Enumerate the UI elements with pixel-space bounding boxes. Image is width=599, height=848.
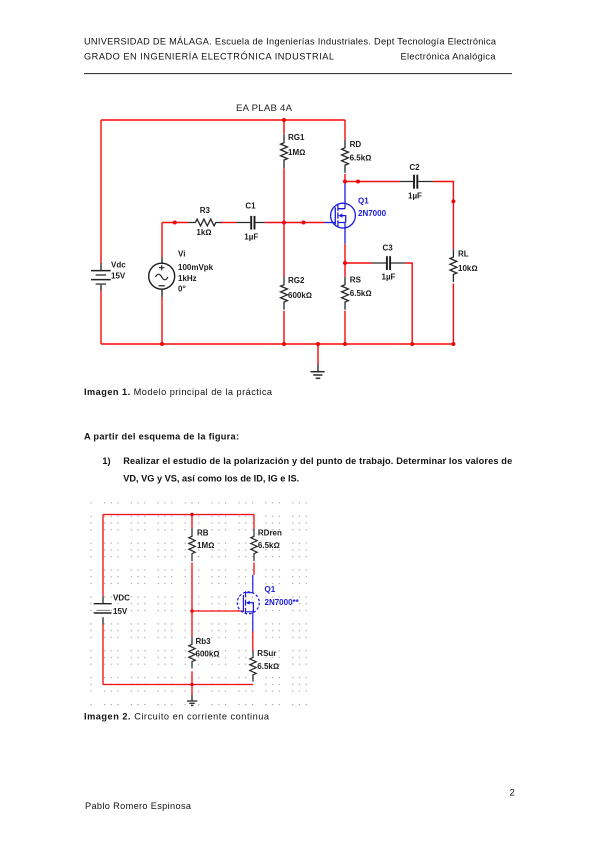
capacitor C3 — [372, 244, 406, 282]
capacitor C2 — [400, 163, 433, 201]
wire left rail lower — [100, 291, 102, 345]
svg-text:EA PLAB 4A: EA PLAB 4A — [236, 103, 293, 114]
svg-text:RSur: RSur — [257, 649, 276, 658]
wire top rail 2 — [103, 514, 254, 516]
wire gate row 2 — [192, 610, 243, 612]
svg-text:VD, VG y VS, así como los de I: VD, VG y VS, así como los de ID, IG e IS… — [123, 473, 299, 483]
svg-text:RD: RD — [350, 140, 362, 149]
junction bottom ground — [316, 342, 320, 346]
resistor RS — [342, 275, 372, 309]
svg-text:1MΩ: 1MΩ — [288, 148, 305, 157]
svg-text:R3: R3 — [200, 206, 211, 215]
wire left rail 2 upper — [102, 515, 104, 597]
wire RG1 bottom stub — [283, 168, 285, 222]
svg-text:RDren: RDren — [258, 528, 282, 537]
svg-text:RG1: RG1 — [288, 133, 305, 142]
svg-text:Electrónica Analógica: Electrónica Analógica — [401, 52, 497, 62]
wire source to RSur — [252, 631, 254, 651]
svg-text:C2: C2 — [409, 163, 420, 172]
svg-text:RL: RL — [458, 250, 469, 259]
junction gate row a — [173, 221, 177, 225]
resistor RD — [342, 140, 372, 173]
wire RB bottom stub — [191, 563, 193, 612]
junction bottom ground 2 — [190, 683, 194, 687]
svg-text:Q1: Q1 — [358, 196, 369, 205]
svg-text:Vdc: Vdc — [111, 261, 126, 270]
junction bottom RS — [343, 342, 347, 346]
svg-text:2N7000**: 2N7000** — [265, 598, 300, 607]
ground (circuit 2) — [187, 695, 197, 706]
svg-text:1): 1) — [102, 456, 110, 466]
svg-text:2N7000: 2N7000 — [358, 209, 387, 218]
resistor RG2 — [281, 276, 312, 310]
capacitor C1 — [236, 202, 265, 242]
junction top rail RB — [190, 513, 194, 517]
AC source Vi — [149, 250, 214, 298]
junction drain node — [343, 180, 347, 184]
svg-text:1MΩ: 1MΩ — [197, 541, 214, 550]
wire RG1 top stub — [283, 120, 285, 134]
junction RL branch — [451, 199, 455, 203]
junction bottom C3 branch — [410, 342, 414, 346]
svg-text:15V: 15V — [113, 607, 128, 616]
wire C1 to gate — [265, 222, 324, 224]
junction bottom RL — [451, 342, 455, 346]
wire Vi branch bottom — [161, 297, 163, 344]
wire RDren bottom stub — [253, 563, 255, 575]
svg-text:6.5kΩ: 6.5kΩ — [257, 662, 279, 671]
wire RG2 top stub — [283, 223, 285, 277]
svg-text:15V: 15V — [111, 271, 126, 280]
svg-text:1µF: 1µF — [244, 233, 258, 242]
wire R3 to C1 — [221, 222, 236, 224]
svg-text:RS: RS — [350, 275, 362, 284]
resistor Rb3 — [189, 637, 220, 668]
junction bottom Vi — [160, 342, 164, 346]
svg-text:0°: 0° — [178, 285, 186, 294]
junction top rail / RG1 — [282, 118, 286, 122]
svg-text:6.5kΩ: 6.5kΩ — [258, 541, 280, 550]
wire left rail 2 lower — [102, 625, 104, 685]
svg-text:1µF: 1µF — [408, 192, 422, 201]
svg-text:Pablo Romero Espinosa: Pablo Romero Espinosa — [85, 801, 192, 811]
wire RS top stub — [344, 263, 346, 277]
svg-text:1µF: 1µF — [382, 273, 396, 282]
wire source pin to node — [344, 244, 346, 263]
wire source row — [345, 262, 372, 264]
wire Vi branch top — [161, 223, 163, 258]
wire RB top stub — [191, 515, 193, 529]
junction source node — [343, 261, 347, 265]
battery Vdc — [91, 261, 126, 291]
resistor R3 — [188, 206, 222, 237]
svg-text:1kΩ: 1kΩ — [196, 228, 211, 237]
junction gate row / RG1-RG2 — [282, 221, 286, 225]
junction gate row b — [302, 221, 306, 225]
wire Rb3 bottom stub — [191, 671, 193, 684]
wire RG2 bottom stub — [283, 311, 285, 344]
svg-text:Q1: Q1 — [265, 585, 276, 594]
svg-text:C3: C3 — [383, 244, 394, 253]
wire top rail — [101, 119, 345, 121]
svg-text:2: 2 — [510, 788, 515, 798]
resistor RB — [189, 528, 214, 561]
resistor RSur — [250, 649, 279, 682]
header rule — [84, 73, 512, 75]
wire left rail upper (Vdc plus side) — [100, 120, 102, 263]
svg-text:Vi: Vi — [178, 250, 185, 259]
junction bottom RG2 — [282, 342, 286, 346]
svg-text:6.5kΩ: 6.5kΩ — [350, 154, 372, 163]
svg-text:Imagen 2. Circuito en corrient: Imagen 2. Circuito en corriente continua — [84, 712, 270, 722]
wire drain row — [345, 181, 400, 183]
svg-text:Realizar el estudio de la pola: Realizar el estudio de la polarización y… — [123, 456, 512, 466]
svg-text:10kΩ: 10kΩ — [458, 264, 478, 273]
wire C2 to RL branch — [433, 182, 453, 250]
wire RD top stub — [344, 120, 346, 140]
resistor RL — [450, 249, 478, 282]
svg-text:1kHz: 1kHz — [178, 274, 197, 283]
svg-text:C1: C1 — [245, 202, 256, 211]
svg-text:RG2: RG2 — [288, 276, 305, 285]
wire RS bottom stub — [344, 311, 346, 344]
svg-text:GRADO EN INGENIERÍA ELECTRÓNIC: GRADO EN INGENIERÍA ELECTRÓNICA INDUSTRI… — [84, 52, 334, 62]
junction drain row b — [356, 180, 360, 184]
wire ground stem 2 — [191, 685, 193, 695]
mosfet Q1 2N7000 (dc) — [237, 575, 299, 631]
svg-text:600kΩ: 600kΩ — [288, 291, 312, 300]
wire Rb3 top stub — [191, 611, 193, 637]
wire bottom rail 2 — [103, 684, 253, 686]
svg-text:Imagen 1. Modelo principal de: Imagen 1. Modelo principal de la práctic… — [84, 387, 273, 397]
wire bottom rail — [101, 343, 453, 345]
resistor RG1 — [281, 133, 306, 168]
svg-text:VDC: VDC — [113, 594, 130, 603]
svg-text:600kΩ: 600kΩ — [196, 650, 220, 659]
wire ground stem — [317, 344, 319, 365]
svg-text:RB: RB — [197, 528, 209, 537]
ground (circuit 1) — [311, 365, 325, 379]
wire RDren top stub — [253, 515, 255, 529]
battery VDC — [94, 594, 130, 625]
wire C3 branch down — [406, 263, 413, 344]
svg-text:A partir del esquema de la fig: A partir del esquema de la figura: — [84, 431, 239, 441]
wire gate row left — [162, 222, 188, 224]
svg-text:6.5kΩ: 6.5kΩ — [350, 289, 372, 298]
wire RL bottom stub — [452, 284, 454, 345]
svg-text:Rb3: Rb3 — [196, 637, 212, 646]
wire RD bottom stub — [344, 174, 346, 182]
junction gate node — [190, 609, 194, 613]
resistor RDren — [251, 528, 282, 561]
svg-text:UNIVERSIDAD DE MÁLAGA. Escuela: UNIVERSIDAD DE MÁLAGA. Escuela de Ingeni… — [84, 36, 497, 46]
mosfet Q1 2N7000 — [325, 182, 387, 244]
svg-text:100mVpk: 100mVpk — [178, 263, 214, 272]
